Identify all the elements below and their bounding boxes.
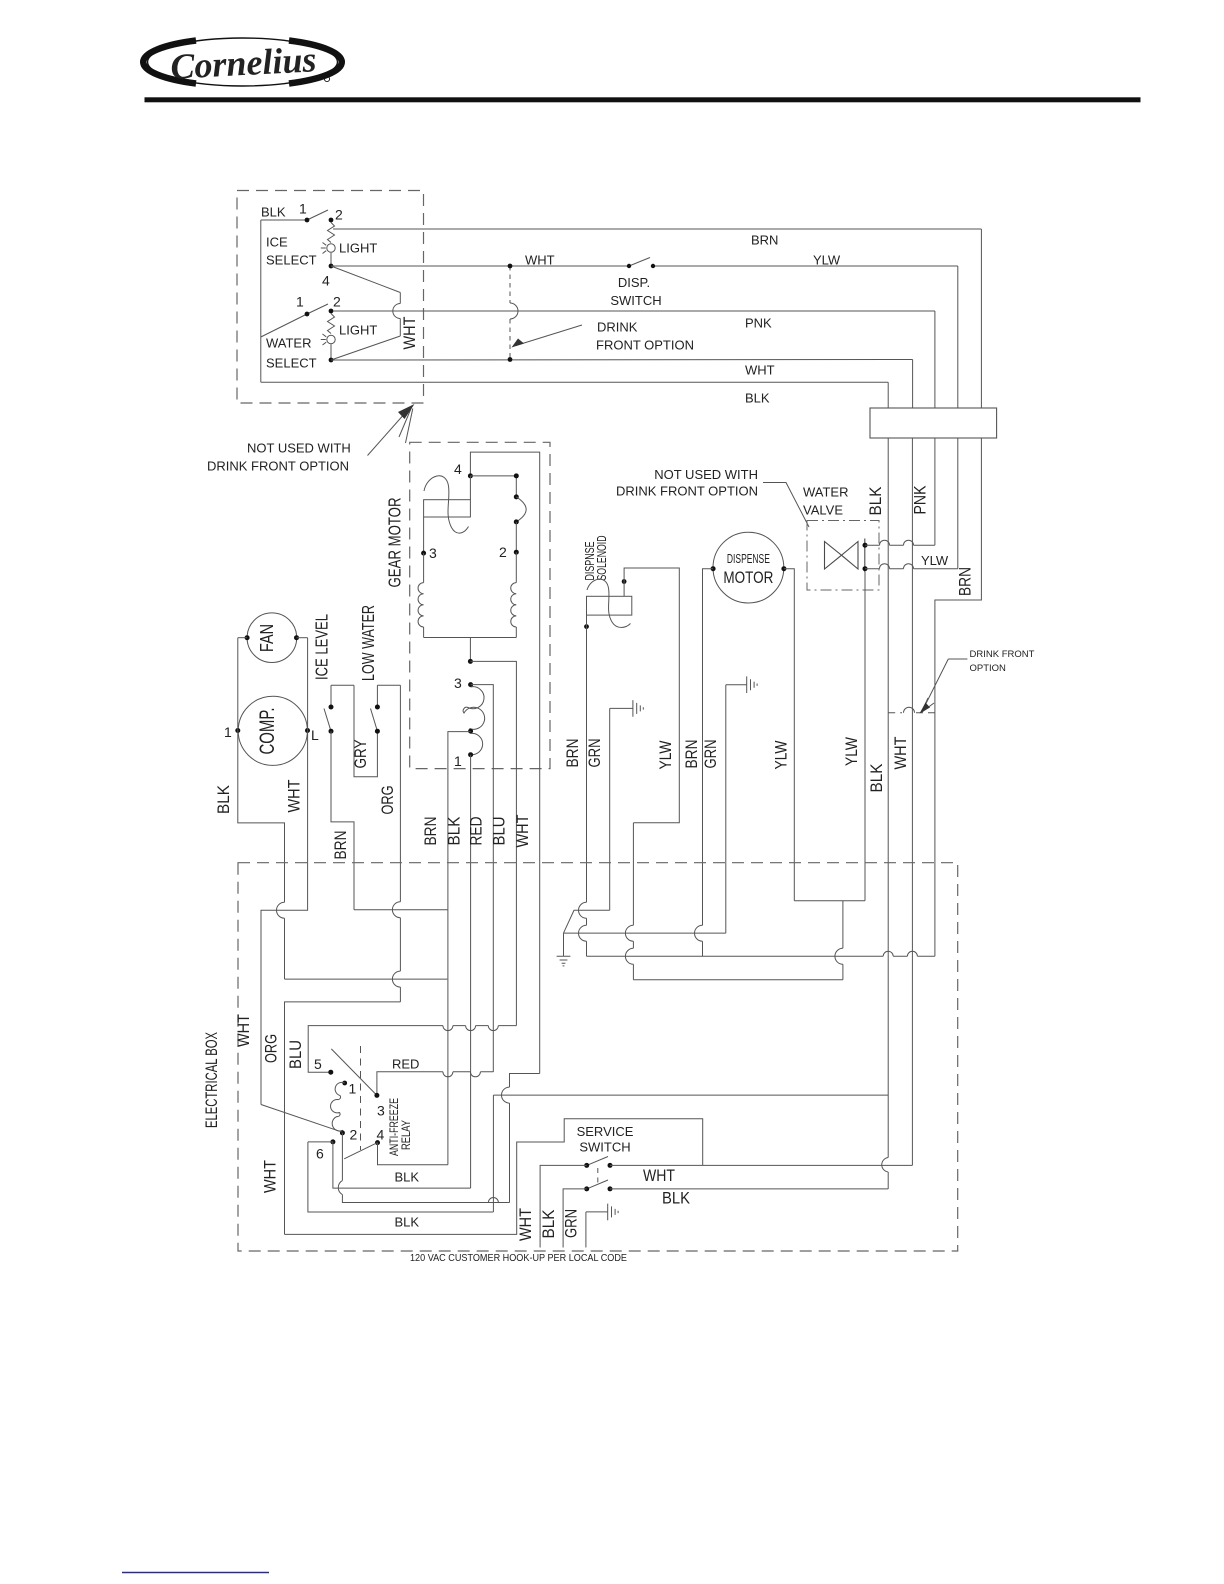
svg-text:1: 1	[454, 753, 462, 769]
wire relay 6 left link	[308, 1141, 333, 1143]
node fan left	[245, 635, 250, 640]
wire relay 4 bottom loop	[378, 1143, 448, 1165]
GRN link wire	[564, 910, 610, 933]
wire BRN out (gear)	[448, 732, 471, 910]
svg-text:5: 5	[314, 1056, 322, 1072]
node low water bottom	[375, 729, 380, 734]
wire BLK service left	[563, 1189, 587, 1248]
node relay 2	[340, 1130, 345, 1135]
wire ice level top link	[331, 684, 354, 686]
node relay 4	[375, 1140, 380, 1145]
svg-text:RED: RED	[392, 1057, 419, 1072]
dispense motor circle	[713, 532, 784, 603]
wire valve top to PNK	[865, 544, 935, 546]
low water switch top	[376, 685, 378, 707]
wire BRN top line	[333, 229, 981, 408]
node dashed drop bottom	[508, 357, 513, 362]
wire PNK line	[333, 311, 935, 408]
relay arm upper	[331, 1049, 377, 1096]
ice select lamp resistor zigzag	[328, 223, 335, 243]
arrow to connector	[923, 659, 967, 710]
wire motor BRN left	[703, 569, 714, 957]
wire GRY loop	[354, 685, 377, 777]
svg-text:DRINK FRONT OPTION: DRINK FRONT OPTION	[616, 484, 758, 499]
node ice 1	[305, 218, 310, 223]
wire to gear 2	[515, 522, 517, 552]
wire BLU out	[470, 661, 516, 1025]
wire ORG jog to left	[285, 1002, 401, 1235]
YLW bus	[633, 979, 843, 981]
service linkage dashed	[597, 1168, 599, 1187]
svg-text:2: 2	[335, 207, 343, 223]
node comp left	[235, 728, 240, 733]
node ice 4	[329, 264, 334, 269]
header rule	[145, 97, 1141, 102]
wire fan left	[238, 637, 247, 639]
svg-text:YLW: YLW	[813, 253, 841, 268]
svg-text:DRINK FRONT OPTION: DRINK FRONT OPTION	[207, 459, 349, 474]
svg-text:WHT: WHT	[892, 737, 910, 770]
drink front option dashed connector	[888, 712, 935, 714]
node gear start mid	[468, 729, 473, 734]
wire select vertical WHT tie	[331, 266, 400, 360]
node gear switch top	[514, 473, 519, 478]
svg-text:SWITCH: SWITCH	[579, 1140, 630, 1155]
water select lamp	[327, 335, 335, 343]
ice level switch	[330, 685, 332, 707]
svg-text:VALVE: VALVE	[803, 503, 843, 518]
svg-text:ELECTRICAL BOX: ELECTRICAL BOX	[202, 1032, 221, 1128]
hop select tie over PNK line	[393, 304, 401, 319]
svg-text:DRINK FRONT: DRINK FRONT	[970, 649, 1035, 660]
node water 2	[329, 309, 334, 314]
svg-text:2: 2	[350, 1127, 358, 1143]
wire YLW valve drop	[864, 572, 866, 901]
wire BLK comp vertical	[238, 638, 285, 979]
svg-text:ICE LEVEL: ICE LEVEL	[312, 614, 332, 680]
svg-text:BLK: BLK	[261, 205, 286, 220]
wire fan right	[297, 637, 308, 639]
relay linkage dashed	[360, 1046, 362, 1150]
arrow to dashed drop	[516, 325, 582, 346]
node solenoid top	[622, 579, 627, 584]
svg-text:BLK: BLK	[662, 1189, 691, 1208]
wire ORG bottom bus	[285, 1119, 703, 1235]
wire ice level BRN jog	[331, 731, 354, 910]
water select lamp resistor zigzag	[328, 314, 335, 334]
wire motor YLW right	[784, 569, 794, 901]
junction box rect	[870, 408, 997, 438]
ice level arm	[324, 709, 331, 732]
svg-text:PNK: PNK	[745, 316, 772, 331]
node gear 4	[468, 473, 473, 478]
fan circle	[247, 613, 297, 663]
svg-text:WATER: WATER	[803, 485, 849, 500]
svg-text:WATER: WATER	[266, 336, 312, 351]
wire solenoid BRN down	[586, 627, 588, 957]
gear winding right	[515, 552, 517, 582]
dashed drop drink front option	[509, 266, 511, 360]
svg-text:WHT: WHT	[514, 815, 532, 848]
wire YLW vertical to valve	[957, 438, 959, 569]
relay coil	[331, 1082, 345, 1133]
svg-text:SELECT: SELECT	[266, 253, 317, 268]
svg-text:BLK: BLK	[540, 1210, 558, 1239]
relay arm lower	[344, 1143, 377, 1159]
low water arm	[371, 709, 378, 732]
svg-text:4: 4	[454, 461, 462, 477]
hop YLW drop over BRN bus	[835, 948, 843, 964]
dispense solenoid sine curve	[587, 579, 631, 627]
node disp switch right	[651, 264, 655, 268]
svg-text:BRN: BRN	[957, 567, 975, 596]
wire BRN link to gear	[354, 909, 448, 911]
svg-text:WHT: WHT	[643, 1166, 675, 1185]
node dashed drop top	[508, 264, 513, 269]
svg-text:BLK: BLK	[745, 391, 770, 406]
svg-text:GRN: GRN	[586, 739, 604, 768]
wire BLU jog	[308, 1026, 516, 1073]
node ice level bottom	[329, 729, 334, 734]
gear bottom bar	[424, 637, 517, 639]
svg-text:1: 1	[299, 201, 307, 217]
wire WHT diagonal to relay 2	[261, 1105, 342, 1133]
node fan right	[294, 635, 299, 640]
svg-text:WHT: WHT	[235, 1014, 253, 1047]
wire PNK vertical to valve	[934, 438, 936, 545]
dispense solenoid box	[587, 596, 632, 615]
ground symbol (motor GRN)	[726, 676, 757, 693]
node gear tap	[468, 659, 473, 664]
diagonal to water select pole	[261, 314, 307, 337]
node disp switch left	[627, 264, 631, 268]
svg-text:BLK: BLK	[446, 817, 464, 846]
node valve bottom	[863, 566, 868, 571]
wire red column lower	[492, 1095, 494, 1212]
hops BRN bus over BLK and WHT	[883, 951, 917, 956]
svg-text:LOW WATER: LOW WATER	[358, 605, 378, 681]
wire GRN solenoid down	[609, 708, 611, 910]
gear motor dashed box	[410, 442, 550, 768]
wire BLK lower line	[261, 382, 888, 408]
svg-text:LIGHT: LIGHT	[339, 323, 377, 338]
node relay 5	[328, 1070, 333, 1075]
svg-text:BRN: BRN	[332, 831, 350, 860]
wire BLK service right	[610, 1188, 888, 1190]
svg-text:BLK: BLK	[215, 785, 233, 814]
service switch upper arm	[587, 1157, 608, 1166]
wire RED out	[471, 685, 494, 1072]
gear winding left	[423, 553, 425, 583]
svg-text:DISP.: DISP.	[618, 275, 650, 290]
electrical box dashed rect	[238, 863, 958, 1251]
node service lower left	[584, 1186, 589, 1191]
footer line	[122, 1572, 269, 1574]
wire relay 6 down to BLK bus	[333, 1142, 471, 1188]
svg-text:FAN: FAN	[257, 624, 277, 652]
svg-text:BLU: BLU	[491, 817, 509, 846]
svg-text:GRY: GRY	[352, 740, 370, 769]
gear thermal sine	[424, 476, 469, 533]
svg-text:WHT: WHT	[525, 253, 555, 268]
node water 4	[329, 358, 334, 363]
node service upper left	[584, 1163, 589, 1168]
wire WHT service left	[540, 1165, 587, 1247]
wire BLK/BRN relay column	[447, 910, 449, 1165]
node water 1	[305, 312, 310, 317]
node relay 1	[342, 1081, 347, 1086]
svg-text:YLW: YLW	[657, 740, 675, 769]
wire BLK into ice select	[261, 219, 307, 221]
wire relay 6 feed down	[308, 1142, 494, 1212]
svg-text:MOTOR: MOTOR	[723, 568, 773, 587]
svg-text:WHT: WHT	[517, 1208, 535, 1241]
svg-text:BLK: BLK	[395, 1215, 420, 1230]
gear start winding upper	[463, 687, 484, 730]
wire low water top link	[377, 684, 400, 686]
wire BRN vertical and jog	[935, 438, 982, 956]
node gear 3	[421, 551, 426, 556]
hop BLK over WHT jog	[277, 902, 285, 918]
wire thermal connections	[424, 476, 471, 553]
svg-text:RED: RED	[468, 816, 486, 845]
svg-text:WHT: WHT	[262, 1160, 280, 1193]
svg-text:GEAR MOTOR: GEAR MOTOR	[385, 498, 405, 588]
svg-text:WHT: WHT	[401, 317, 419, 350]
node relay 6	[330, 1139, 335, 1144]
svg-text:FRONT OPTION: FRONT OPTION	[596, 338, 694, 353]
svg-text:SOLENOID: SOLENOID	[595, 536, 609, 581]
gear centrifugal switch arc	[516, 497, 526, 522]
hops BLU over RED BLK BRN	[443, 1026, 498, 1031]
node gear 2	[514, 550, 519, 555]
service switch lower arm	[587, 1180, 608, 1189]
wire WHT lower line	[331, 360, 913, 409]
arrow to select box	[368, 408, 413, 456]
hops BRN over grn link and ground line	[579, 902, 587, 941]
hops ORG over BRN link and BLK link	[392, 902, 400, 987]
wire RED jog to relay 3	[377, 1072, 493, 1096]
node gear start 3	[468, 682, 473, 687]
gear thermal protector	[424, 500, 471, 517]
comp circle	[238, 696, 307, 765]
leader to valve box	[763, 483, 809, 528]
node ice 2	[329, 218, 334, 223]
svg-text:ORG: ORG	[379, 786, 397, 815]
svg-text:4: 4	[377, 1127, 385, 1143]
svg-text:ORG: ORG	[263, 1034, 281, 1063]
svg-text:OPTION: OPTION	[970, 663, 1007, 674]
wire WHT gear jog	[510, 1074, 540, 1203]
ice select lamp	[327, 244, 335, 252]
wire valve bottom to YLW	[865, 568, 958, 570]
wire BLK link to relay column	[285, 978, 448, 980]
YLW junction bar	[794, 901, 865, 980]
svg-text:3: 3	[454, 675, 462, 691]
svg-text:4: 4	[322, 273, 330, 289]
svg-text:LIGHT: LIGHT	[339, 241, 377, 256]
svg-text:GRN: GRN	[563, 1209, 581, 1238]
node service lower right	[608, 1186, 613, 1191]
svg-text:2: 2	[333, 294, 341, 310]
water valve symbol	[825, 542, 859, 570]
Cornelius logo	[143, 38, 342, 87]
svg-text:ICE: ICE	[266, 235, 288, 250]
water valve dash-dot box	[807, 521, 879, 591]
svg-text:BRN: BRN	[683, 740, 701, 769]
node solenoid bottom	[584, 624, 589, 629]
hop motor BRN over ground line	[695, 925, 703, 941]
svg-text:PNK: PNK	[912, 486, 930, 515]
svg-text:1: 1	[296, 294, 304, 310]
svg-text:BRN: BRN	[564, 739, 582, 768]
svg-text:BLK: BLK	[395, 1170, 420, 1185]
switch arm ice select	[307, 210, 328, 220]
relay2 bus hop	[488, 1198, 498, 1203]
svg-text:GRN: GRN	[702, 740, 720, 769]
wire BLK out (gear)	[470, 755, 472, 1188]
svg-text:SERVICE: SERVICE	[577, 1124, 634, 1139]
svg-text:COMP.: COMP.	[256, 708, 279, 755]
wire relay 2 down	[342, 1133, 509, 1203]
ground bus wire	[564, 932, 726, 934]
wire solenoid YLW out	[624, 568, 679, 980]
wire WHT service right	[610, 1164, 912, 1166]
wire GRN motor down	[725, 685, 727, 933]
svg-text:3: 3	[429, 545, 437, 561]
node service upper right	[608, 1163, 613, 1168]
hops RED over BLK BRN	[443, 1072, 481, 1077]
svg-text:WHT: WHT	[745, 363, 775, 378]
node motor left	[711, 566, 716, 571]
node low water top	[375, 705, 380, 710]
svg-text:2: 2	[499, 544, 507, 560]
ice/water select dashed box	[237, 191, 424, 404]
svg-text:1: 1	[349, 1081, 357, 1097]
hop relay2 wire over BLK bus	[338, 1181, 342, 1195]
svg-text:BLK: BLK	[867, 487, 885, 516]
svg-text:Cornelius: Cornelius	[169, 39, 317, 87]
gear start winding lower	[471, 733, 483, 754]
svg-text:1: 1	[224, 724, 232, 740]
node ice level top	[329, 705, 334, 710]
svg-text:YLW: YLW	[921, 553, 949, 568]
hop WHT jog over link	[502, 1087, 510, 1103]
svg-text:BRN: BRN	[422, 817, 440, 846]
wire link bus	[493, 1094, 888, 1096]
svg-text:BRN: BRN	[751, 233, 778, 248]
wire WHT vertical below junction	[911, 438, 913, 1165]
svg-text:NOT USED WITH: NOT USED WITH	[247, 441, 351, 456]
svg-text:RELAY: RELAY	[399, 1120, 413, 1150]
ground symbol (solenoid GRN)	[610, 700, 644, 717]
gear center tap	[469, 638, 471, 662]
node comp right	[305, 728, 310, 733]
svg-text:L: L	[311, 727, 319, 743]
svg-text:YLW: YLW	[843, 737, 861, 766]
wire GRN service down	[585, 1212, 587, 1248]
svg-text:BLK: BLK	[868, 764, 886, 793]
svg-text:NOT USED WITH: NOT USED WITH	[654, 467, 758, 482]
ground symbol (main)	[557, 933, 571, 966]
switch arm water select	[307, 304, 328, 314]
svg-text:BLU: BLU	[287, 1040, 305, 1069]
svg-text:3: 3	[377, 1103, 385, 1119]
hops YLW over ground line and BRN bus	[625, 925, 633, 964]
left vertical inside select box	[260, 220, 262, 382]
node gear switch bottom	[514, 519, 519, 524]
hop BLK over WHT service line	[882, 1158, 888, 1173]
svg-text:WHT: WHT	[286, 780, 304, 813]
wire solenoid bottom stub	[586, 615, 588, 627]
svg-text:120 VAC CUSTOMER HOOK-UP PER L: 120 VAC CUSTOMER HOOK-UP PER LOCAL CODE	[410, 1253, 627, 1264]
BRN bus	[587, 955, 935, 957]
node valve top	[863, 543, 868, 548]
node relay 3	[374, 1093, 379, 1098]
svg-text:YLW: YLW	[773, 740, 791, 769]
gear motor frame top	[470, 452, 539, 1073]
svg-text:DISPENSE: DISPENSE	[727, 551, 770, 566]
node motor right	[781, 566, 786, 571]
node gear start 1	[468, 752, 473, 757]
svg-text:6: 6	[316, 1146, 324, 1162]
svg-text:DRINK: DRINK	[597, 320, 638, 335]
wire ORG down	[399, 685, 401, 1002]
wire WHT/YLW line with disp switch	[331, 266, 958, 408]
wire gear 4 to switch	[470, 476, 516, 497]
svg-text:SWITCH: SWITCH	[610, 293, 661, 308]
svg-text:SELECT: SELECT	[266, 356, 317, 371]
wire BLK vertical below junction	[887, 438, 889, 1189]
wire WHT comp vertical	[261, 638, 308, 1105]
ground symbol (service GRN)	[586, 1204, 618, 1221]
disp switch arm	[629, 258, 650, 267]
